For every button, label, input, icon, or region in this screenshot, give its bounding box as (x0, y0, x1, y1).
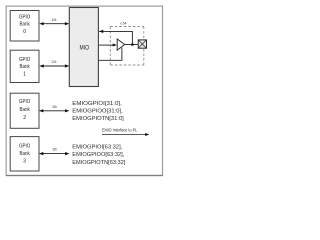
EMIO signals bank3 (72, 145, 125, 166)
svg-text:EMIOGPIOTN[31:0]: EMIOGPIOTN[31:0] (72, 116, 124, 122)
GPIO Bank 3 box (10, 137, 39, 171)
GPIO Bank 2 box (10, 93, 39, 128)
svg-text:EMIOGPIOI[63:32],: EMIOGPIOI[63:32], (72, 145, 122, 151)
svg-text:EMIOGPIOTN[63:32]: EMIOGPIOTN[63:32] (72, 160, 125, 166)
wire buffer to pad (125, 44, 138, 46)
io pad (138, 40, 146, 48)
svg-text:EMIOGPIOO[63:32],: EMIOGPIOO[63:32], (72, 152, 124, 158)
GPIO Bank 0 box (10, 11, 39, 42)
svg-text:MIO: MIO (80, 45, 90, 52)
svg-text:Bank: Bank (19, 150, 30, 157)
svg-text:GPIO: GPIO (19, 99, 30, 106)
node junction (131, 43, 134, 46)
svg-text:Bank: Bank (19, 21, 30, 28)
svg-text:32b: 32b (52, 105, 57, 109)
dashed repeat box (110, 27, 144, 66)
EMIO signals bank2 (72, 101, 124, 122)
MIO block (69, 8, 98, 87)
GPIO Bank 0 label (19, 14, 30, 35)
wire bank1-MIO (41, 65, 68, 67)
svg-text:Bank: Bank (19, 106, 30, 113)
GPIO Bank 1 box (10, 50, 39, 82)
wire MIO to buffer input (99, 44, 114, 46)
outer frame (6, 6, 162, 175)
svg-text:x 54: x 54 (120, 21, 126, 25)
svg-text:1: 1 (23, 71, 26, 77)
wire buffer enable (99, 48, 122, 61)
svg-text:Bank: Bank (19, 63, 30, 70)
wire pad feedback to MIO (99, 31, 132, 43)
svg-text:EMIO Interface to PL: EMIO Interface to PL (102, 127, 138, 132)
svg-text:EMIOGPIOI[31:0],: EMIOGPIOI[31:0], (72, 101, 122, 107)
output buffer (117, 39, 125, 50)
svg-text:GPIO: GPIO (19, 143, 30, 150)
svg-text:EMIOGPIOO[31:0],: EMIOGPIOO[31:0], (72, 108, 123, 114)
GPIO Bank 2 label (19, 99, 30, 121)
wire bank3-EMIO (41, 153, 68, 155)
wire bank0-MIO (41, 23, 68, 25)
svg-text:32b: 32b (52, 147, 57, 151)
frame bottom shade (6, 175, 162, 177)
svg-text:0: 0 (23, 28, 26, 34)
GPIO Bank 3 label (19, 143, 30, 164)
svg-text:3: 3 (23, 158, 26, 164)
svg-text:22b: 22b (52, 60, 57, 64)
GPIO Bank 1 label (19, 56, 30, 77)
svg-text:2: 2 (23, 115, 26, 121)
EMIO interface arrow (102, 134, 146, 136)
svg-text:GPIO: GPIO (19, 56, 30, 63)
svg-text:GPIO: GPIO (19, 14, 30, 21)
wire bank2-EMIO (41, 110, 68, 112)
svg-text:32b: 32b (52, 18, 57, 22)
